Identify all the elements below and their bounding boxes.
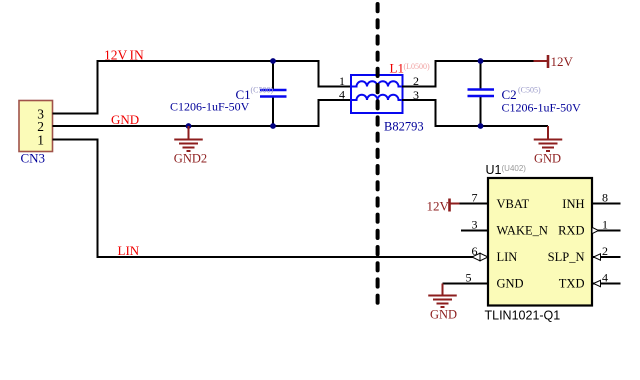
capacitor C1 plates (260, 90, 287, 97)
inductor L1 common-mode choke body (351, 75, 403, 113)
ground symbol at U1 pin 5 (428, 284, 457, 308)
svg-text:7: 7 (472, 191, 478, 205)
capacitor C2 plates (468, 90, 495, 97)
L1 bottom winding (352, 95, 402, 100)
svg-text:SLP_N: SLP_N (548, 250, 585, 264)
wire U1 pin 3 stub (461, 230, 488, 232)
svg-text:INH: INH (562, 197, 584, 211)
wire net LIN from CN3 pin 1 down and right to U1 pin 6 (53, 140, 475, 258)
svg-text:4: 4 (339, 88, 345, 102)
svg-text:GND: GND (534, 152, 561, 166)
power symbol 12V at U1 pin 7 (450, 199, 460, 212)
junction dot C2 bottom (478, 123, 484, 129)
svg-text:RXD: RXD (558, 224, 584, 238)
svg-text:LIN: LIN (497, 250, 518, 264)
svg-text:L1: L1 (390, 61, 404, 76)
U1 pin 4 input arrow (594, 280, 601, 286)
ground symbol right (534, 126, 563, 151)
U1 pin 1 output arrow (592, 227, 599, 233)
wire U1 pin 1 stub (592, 230, 621, 232)
separation dashed line (376, 4, 380, 308)
svg-text:12V: 12V (104, 48, 128, 63)
wire U1 pin 4 stub (592, 283, 621, 285)
svg-text:3: 3 (472, 218, 478, 232)
svg-text:IN: IN (130, 48, 144, 63)
svg-text:U1: U1 (486, 163, 502, 177)
svg-text:CN3: CN3 (21, 151, 46, 166)
wire net 12V_IN from CN3 pin 3 up and right to L1 pin 1 (53, 61, 353, 114)
svg-text:GND: GND (430, 308, 457, 322)
svg-text:WAKE_N: WAKE_N (497, 224, 548, 238)
U1 pin 6 bidirectional arrows (472, 253, 488, 261)
L1 top winding (352, 81, 402, 86)
power symbol 12V top right (534, 55, 549, 68)
IC U1 body (488, 178, 592, 306)
svg-text:1: 1 (339, 74, 345, 88)
U1 pin 2 input arrow (594, 254, 601, 260)
svg-text:VBAT: VBAT (497, 197, 530, 211)
wire U1 pin 2 stub (592, 256, 621, 258)
svg-text:LIN: LIN (118, 243, 140, 258)
svg-text:12V: 12V (551, 54, 574, 69)
svg-text:2: 2 (602, 244, 608, 258)
svg-text:(C505): (C505) (518, 86, 541, 95)
junction dot C1 top (270, 58, 276, 64)
junction dot GND2 tap (186, 123, 192, 129)
svg-text:B82793: B82793 (384, 120, 424, 134)
svg-text:(U402): (U402) (502, 164, 527, 173)
svg-text:TXD: TXD (559, 277, 585, 291)
svg-text:8: 8 (602, 191, 608, 205)
wire U1 pin 8 stub (592, 203, 621, 205)
connector CN3 body (19, 101, 53, 152)
wire net GND from CN3 pin 2 right to L1 pin 4 (53, 100, 353, 126)
wire C2 bottom branch (480, 96, 482, 126)
ground symbol GND2 (174, 126, 203, 151)
wire U1 pin 7 stub (460, 203, 489, 205)
svg-text:4: 4 (602, 271, 608, 285)
wire C1 top branch (272, 61, 274, 90)
svg-text:TLIN1021-Q1: TLIN1021-Q1 (485, 309, 561, 323)
wire C1 bottom branch (272, 97, 274, 127)
svg-text:1: 1 (602, 218, 608, 232)
wire C2 top branch (480, 61, 482, 90)
svg-text:C1206-1uF-50V: C1206-1uF-50V (502, 101, 582, 115)
wire from L1 pin 3 down and right to GND symbol (402, 100, 548, 126)
svg-text:GND: GND (111, 112, 139, 127)
wire from L1 pin 2 up and right to 12V bar (402, 61, 534, 87)
svg-text:GND: GND (497, 277, 524, 291)
svg-text:1: 1 (37, 133, 44, 148)
svg-text:12V: 12V (427, 199, 450, 214)
junction dot C2 top (478, 58, 484, 64)
svg-text:C1206-1uF-50V: C1206-1uF-50V (170, 100, 250, 114)
wire U1 pin 5 stub (443, 283, 489, 285)
junction dot C1 bottom (270, 123, 276, 129)
svg-text:GND2: GND2 (174, 152, 207, 166)
svg-text:(C500): (C500) (251, 86, 274, 95)
svg-text:(L0500): (L0500) (404, 62, 431, 71)
svg-text:5: 5 (466, 271, 472, 285)
